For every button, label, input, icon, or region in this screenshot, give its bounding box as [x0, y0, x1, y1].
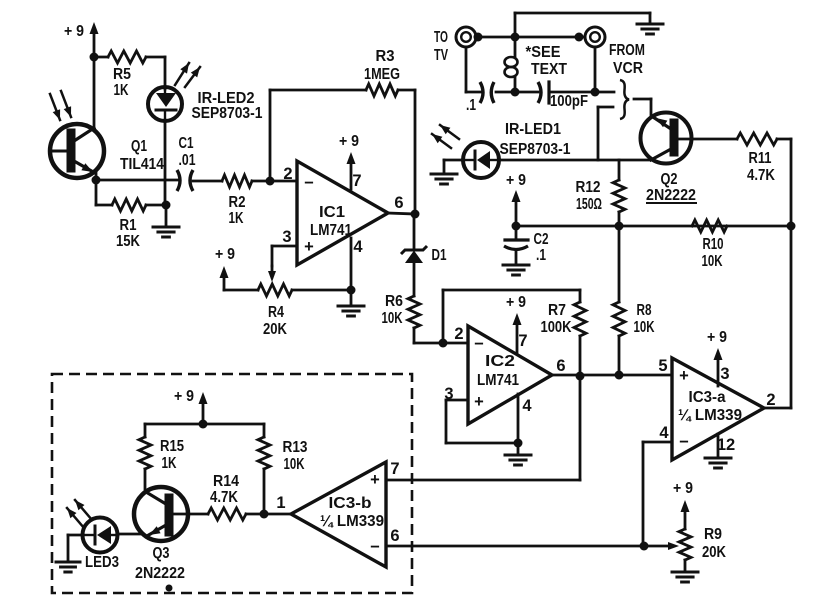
svg-text:.01: .01: [179, 152, 196, 169]
svg-text:+ 9: + 9: [707, 329, 727, 346]
svg-text:R10: R10: [703, 236, 724, 253]
power +9 (R4): [215, 246, 235, 290]
connector TO TV: [434, 27, 476, 64]
power +9 (box): [174, 388, 208, 424]
wire R3 to IC1 output node: [414, 90, 417, 214]
svg-text:+ 9: + 9: [506, 294, 526, 311]
resistor R12 150Ω: [576, 160, 626, 226]
capacitor C1 .01: [177, 135, 196, 191]
wire 100pF to brace: [549, 91, 614, 94]
svg-text:R3: R3: [376, 48, 395, 65]
svg-text:IC2: IC2: [485, 353, 515, 370]
svg-text:10K: 10K: [382, 310, 403, 327]
wire IC3-a output pin2: [764, 407, 791, 410]
svg-text:+: +: [304, 238, 314, 256]
wire IC2 pin3 loop: [446, 400, 518, 443]
node S (R9 wiper junction): [640, 542, 649, 551]
wire top rail to ground: [515, 13, 650, 37]
svg-text:7: 7: [390, 460, 399, 478]
svg-text:+ 9: + 9: [64, 23, 84, 40]
op-amp IC2 LM741: [444, 325, 565, 424]
node O (left of FROM VCR): [515, 33, 585, 42]
node L (coil top): [511, 33, 520, 42]
LED IR-LED1 SEP8703-1: [432, 121, 571, 178]
svg-text:R12: R12: [576, 179, 601, 196]
svg-text:R8: R8: [637, 302, 652, 319]
node H (IC2 pin3/pin4/ground): [514, 439, 523, 448]
resistor R6 10K: [382, 293, 421, 343]
svg-text:4: 4: [659, 424, 669, 442]
op-amp IC1 LM741: [282, 161, 403, 265]
svg-text:+ 9: + 9: [506, 172, 526, 189]
svg-text:15K: 15K: [116, 233, 140, 250]
wire IR-LED2 cathode down (crosses signal wire): [164, 120, 167, 205]
wire TO-TV down leg: [466, 47, 481, 92]
brace (coupling, see text): [620, 80, 629, 119]
svg-text:2: 2: [766, 391, 775, 409]
resistor R8 10K: [613, 226, 655, 375]
capacitor C .1: [466, 82, 494, 114]
svg-text:20K: 20K: [263, 321, 287, 338]
wire IC1 pin4: [350, 238, 353, 290]
node F (IC1 output): [411, 210, 420, 219]
wire IC1 pin3 loop: [272, 246, 297, 266]
resistor R11 4.7K: [678, 133, 791, 184]
svg-text:.1: .1: [536, 247, 546, 264]
resistor R13 10K: [258, 424, 308, 514]
svg-text:−: −: [474, 335, 484, 353]
power +9 (C2): [506, 172, 526, 226]
svg-text:R15: R15: [160, 438, 184, 455]
svg-text:1K: 1K: [229, 210, 244, 227]
svg-text:10K: 10K: [702, 253, 723, 270]
capacitor 100pF: [538, 82, 588, 110]
node M (coil bottom): [511, 88, 520, 97]
potentiometer R9 20K: [644, 526, 726, 572]
svg-text:IC1: IC1: [319, 204, 345, 221]
svg-text:IC3-b: IC3-b: [329, 495, 372, 512]
transistor Q2 2N2222: [641, 113, 697, 205]
wire R5 to IR-LED2 anode: [164, 57, 167, 89]
node U (R13/R14/IC3-b in): [260, 510, 269, 519]
svg-text:R5: R5: [113, 66, 131, 83]
wire right rail (R11 to IC3-a out): [790, 139, 793, 408]
wire IC3-b pin6 to R9 node: [386, 545, 644, 548]
zener diode D1: [401, 214, 447, 296]
wire IR-LED1 to Q2 emitter line: [500, 159, 651, 162]
wire IC2 pin4: [517, 394, 520, 443]
svg-text:LM741: LM741: [477, 372, 519, 389]
wire R6 to IC2 pin2: [414, 342, 443, 345]
wire C1 to R2: [193, 180, 222, 183]
resistor R14 4.7K: [188, 473, 264, 520]
ground (LED3): [56, 562, 80, 572]
resistor R10 10K: [692, 220, 727, 270]
svg-text:4: 4: [353, 238, 363, 256]
svg-text:3: 3: [282, 228, 291, 246]
svg-text:R4: R4: [268, 304, 284, 321]
svg-text:1MEG: 1MEG: [364, 66, 400, 83]
node D (IC1 inverting input): [266, 177, 275, 186]
svg-text:IC3-a: IC3-a: [689, 389, 726, 406]
potentiometer R4 20K: [224, 266, 351, 338]
svg-text:.1: .1: [466, 97, 476, 114]
svg-text:1K: 1K: [114, 82, 129, 99]
svg-text:IR-LED1: IR-LED1: [505, 121, 561, 138]
wire box +9 rail: [145, 423, 264, 426]
node A (R5/+9 junction): [90, 53, 99, 62]
node N (FROM VCR bottom): [591, 88, 600, 97]
resistor R5 1K: [94, 51, 165, 99]
svg-text:R6: R6: [385, 293, 403, 310]
svg-text:Q1: Q1: [131, 138, 147, 155]
svg-text:5: 5: [658, 357, 667, 375]
ground (IC3-a): [705, 458, 731, 468]
svg-text:6: 6: [394, 194, 403, 212]
svg-text:+ 9: + 9: [174, 388, 194, 405]
wire IC1 pin2: [270, 180, 297, 183]
capacitor C2 .1: [504, 226, 549, 265]
wire coil to 100pF: [515, 91, 538, 94]
wire emitter riser to brace: [598, 107, 613, 160]
svg-text:1: 1: [276, 494, 285, 512]
inductor L1 (see text): [505, 37, 568, 92]
node P (C2/+9): [512, 222, 521, 231]
svg-text:2N2222: 2N2222: [135, 565, 185, 582]
ground (below R4): [338, 290, 364, 316]
wire brace to Q2 base: [634, 99, 651, 117]
power +9 (IC2 pin7): [506, 294, 526, 353]
wire +9 rail down to Q1 collector: [93, 57, 96, 128]
wire IC1 output: [388, 213, 415, 214]
wire TO-TV to top rail: [476, 36, 515, 39]
svg-text:C2: C2: [534, 231, 549, 248]
svg-text:FROM: FROM: [609, 42, 645, 59]
power +9 supply (top left): [64, 22, 99, 57]
wire IC3-b pin7 to IC2 output: [386, 376, 580, 480]
svg-text:6: 6: [390, 527, 399, 545]
svg-text:+ 9: + 9: [339, 133, 359, 150]
svg-text:R2: R2: [229, 194, 246, 211]
svg-text:R9: R9: [704, 526, 722, 543]
node G (IC2 inverting input): [439, 339, 448, 348]
wire R3 feedback left leg: [269, 90, 272, 181]
wire IC3-a pin4: [643, 442, 672, 546]
ground (below IC2): [505, 443, 531, 465]
svg-text:4: 4: [522, 397, 532, 415]
svg-text:−: −: [370, 538, 380, 556]
connector FROM VCR: [585, 27, 645, 77]
svg-text:+ 9: + 9: [215, 246, 235, 263]
svg-text:+: +: [474, 393, 484, 411]
svg-text:7: 7: [518, 332, 527, 350]
svg-text:R11: R11: [749, 150, 772, 167]
svg-text:+ 9: + 9: [673, 480, 693, 497]
svg-text:4.7K: 4.7K: [747, 167, 775, 184]
wire C.1 to coil bottom: [496, 91, 515, 94]
ground (top right): [637, 24, 663, 34]
wire IC2 output to IC3-a: [552, 374, 672, 377]
dot on dashed border: [166, 585, 173, 592]
dashed enclosure box: [52, 374, 412, 593]
power +9 (IC3-a pin3): [707, 329, 727, 386]
LED IR-LED2 SEP8703-1: [148, 63, 263, 122]
svg-text:R1: R1: [120, 217, 137, 234]
svg-text:2: 2: [454, 325, 463, 343]
wire R7 feedback top: [443, 289, 580, 292]
wire LED3 to ground: [68, 535, 83, 562]
svg-text:¼ LM339: ¼ LM339: [678, 407, 742, 424]
svg-text:−: −: [679, 433, 689, 451]
wire LED3 to Q3 emitter: [117, 533, 143, 536]
wire IR-LED1 to ground: [444, 160, 463, 174]
svg-text:20K: 20K: [702, 544, 726, 561]
node C (R1/ground): [162, 201, 171, 210]
ground (C2): [503, 265, 529, 275]
svg-text:LM741: LM741: [310, 222, 352, 239]
node K (TO TV): [474, 33, 483, 42]
svg-text:TO: TO: [434, 29, 448, 46]
svg-text:Q3: Q3: [153, 545, 170, 562]
svg-text:¼ LM339: ¼ LM339: [320, 513, 384, 530]
svg-text:Q2: Q2: [661, 171, 678, 188]
ground (below R1): [153, 205, 179, 237]
svg-text:2N2222: 2N2222: [646, 187, 696, 204]
power +9 (R9): [673, 480, 693, 529]
svg-text:TEXT: TEXT: [531, 61, 567, 78]
node T (+9 rail in box): [199, 420, 208, 429]
svg-text:150Ω: 150Ω: [576, 196, 602, 213]
svg-text:10K: 10K: [634, 319, 655, 336]
node I (R7 bottom): [576, 372, 585, 381]
LED LED3: [67, 500, 119, 571]
resistor R1 15K: [96, 180, 166, 250]
svg-text:D1: D1: [432, 247, 447, 264]
wire Q1 emitter to C1: [96, 170, 178, 180]
wire R7 feedback left leg: [442, 290, 445, 343]
node E (R4/IC1 pin4/ground): [347, 286, 356, 295]
svg-text:100K: 100K: [541, 319, 572, 336]
svg-text:3: 3: [720, 365, 729, 383]
phototransistor Q1 TIL414: [50, 91, 164, 178]
wire FROM-VCR down leg: [594, 47, 597, 92]
svg-text:SEP8703-1: SEP8703-1: [192, 105, 263, 122]
ground (R9): [672, 572, 698, 582]
svg-text:100pF: 100pF: [550, 93, 588, 110]
svg-text:R7: R7: [548, 302, 566, 319]
wire IC3-a pin12 to ground: [717, 434, 720, 458]
svg-text:VCR: VCR: [613, 60, 643, 77]
svg-text:4.7K: 4.7K: [210, 489, 238, 506]
svg-text:TV: TV: [434, 47, 448, 64]
svg-text:+: +: [679, 367, 689, 385]
resistor R2 1K: [222, 175, 270, 227]
resistor R7 100K: [541, 290, 587, 376]
svg-text:C1: C1: [179, 135, 194, 152]
svg-text:R14: R14: [213, 473, 239, 490]
wire R14 node to IC3-b pin1: [264, 513, 291, 516]
wire IC2 pin2: [443, 342, 468, 345]
node J (R8 bottom): [615, 371, 624, 380]
transistor Q3 2N2222: [134, 487, 188, 582]
svg-text:TIL414: TIL414: [120, 156, 164, 173]
node B (Q1 emitter): [92, 176, 101, 185]
node Q (R12/R8 junction): [615, 222, 624, 231]
svg-text:10K: 10K: [284, 456, 305, 473]
svg-text:7: 7: [352, 172, 361, 190]
svg-text:+: +: [370, 471, 380, 489]
svg-text:SEP8703-1: SEP8703-1: [500, 141, 571, 158]
wire +9 node to R10 rail: [516, 225, 791, 228]
comparator IC3-b ¼ LM339 (points left): [276, 460, 399, 567]
svg-text:1K: 1K: [162, 455, 177, 472]
resistor R15 1K: [139, 424, 184, 489]
ground (IR-LED1): [431, 174, 457, 184]
power +9 (IC1 pin7): [339, 133, 359, 189]
svg-text:6: 6: [556, 357, 565, 375]
svg-text:−: −: [304, 174, 314, 192]
svg-text:R13: R13: [283, 439, 308, 456]
resistor R3 1MEG: [270, 48, 415, 96]
svg-text:LED3: LED3: [85, 554, 119, 571]
svg-text:*SEE: *SEE: [526, 44, 561, 61]
comparator IC3-a ¼ LM339: [658, 357, 775, 460]
svg-text:12: 12: [717, 436, 735, 454]
node R (R10/R11 right rail): [787, 222, 796, 231]
